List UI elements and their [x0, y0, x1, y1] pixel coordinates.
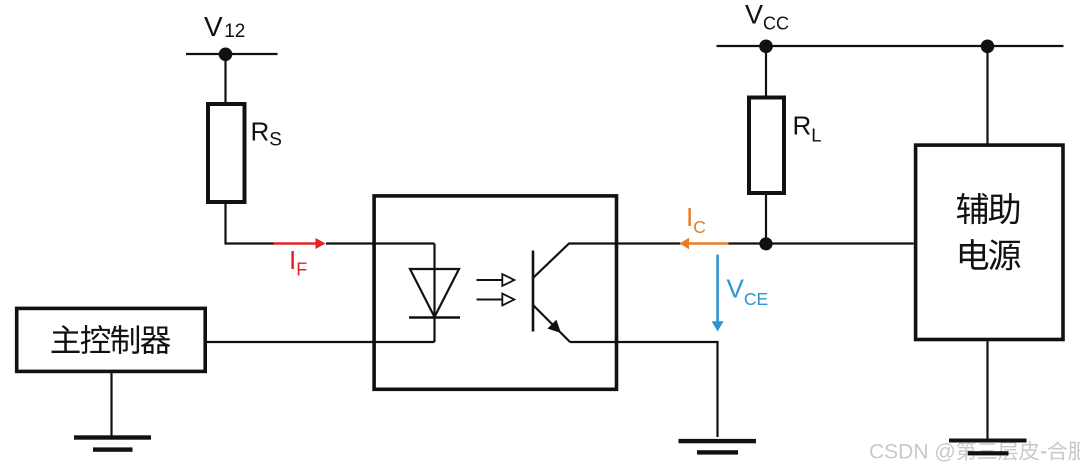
wire IC node to aux supply	[729, 242, 914, 244]
junction dot VCC-RL	[759, 40, 773, 54]
light arrow lower	[477, 299, 503, 301]
svg-text:CSDN @: CSDN @	[869, 441, 956, 464]
wire RS to IF node	[226, 204, 275, 244]
wire aux supply to ground	[986, 341, 988, 441]
voltage arrow VCE (blue)	[716, 255, 719, 323]
junction dot on V12 rail	[219, 48, 233, 62]
wire emitter to ground corner	[570, 342, 718, 437]
resistor RS	[208, 104, 245, 202]
wire controller to optocoupler LED cathode	[207, 341, 435, 343]
current arrow IC (orange)	[680, 238, 690, 249]
wire RL to collector node	[765, 195, 767, 244]
ground (controller)	[74, 435, 151, 439]
phototransistor collector	[534, 244, 570, 278]
ground (aux supply)	[949, 439, 1027, 443]
junction dot collector node	[759, 237, 772, 250]
wire collector to output node	[569, 242, 681, 244]
ground (emitter)	[679, 439, 757, 443]
svg-text:IF: IF	[289, 245, 307, 279]
block: auxiliary power (辅助电源)	[916, 145, 1063, 339]
block: main controller (主控制器)	[17, 308, 206, 371]
phototransistor emitter	[534, 306, 571, 343]
wire VCC to aux supply	[986, 46, 988, 144]
svg-text:IC: IC	[686, 202, 706, 237]
svg-text:V12: V12	[204, 11, 245, 42]
resistor RL	[749, 98, 784, 194]
current arrow IF (red)	[274, 242, 318, 244]
svg-text:VCC: VCC	[745, 0, 789, 33]
wire IF arrow to optocoupler	[326, 242, 374, 244]
svg-text:RL: RL	[793, 111, 822, 146]
light arrow upper	[477, 279, 503, 281]
LED cathode bar	[409, 316, 460, 319]
emitter arrowhead	[547, 320, 561, 333]
wire VCC to RL	[765, 46, 767, 96]
LED diode triangle	[410, 269, 459, 317]
VCC supply rail	[717, 45, 1064, 47]
phototransistor base bar	[532, 251, 535, 332]
V12 supply rail	[186, 53, 278, 55]
LED vertical lead	[433, 244, 435, 343]
wire LED anode lead	[374, 242, 435, 244]
wire V12 rail to RS	[224, 54, 226, 103]
svg-text:VCE: VCE	[727, 274, 769, 310]
wire controller to ground	[110, 373, 112, 437]
junction dot VCC-aux	[981, 40, 995, 54]
svg-text:RS: RS	[251, 117, 282, 151]
optocoupler package box	[374, 196, 616, 389]
